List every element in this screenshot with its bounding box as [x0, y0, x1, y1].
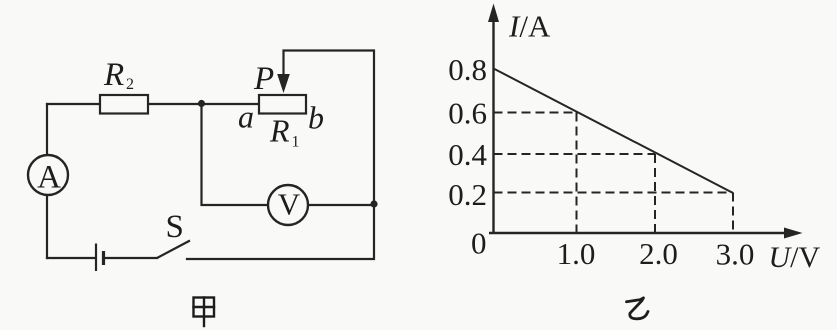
wire: left vertical, top corner down to ammeter top	[46, 104, 48, 155]
x-axis U	[489, 232, 793, 234]
dashed line 2.0 vertical	[654, 154, 656, 233]
svg-text:A: A	[37, 160, 61, 196]
wire: R2 right to junction to R1 left	[148, 103, 259, 105]
svg-text:b: b	[308, 100, 324, 136]
dashed line 0.6 horizontal	[494, 112, 579, 114]
wire: ammeter bottom down to bottom-left corner	[46, 195, 48, 258]
dashed line 3.0 vertical	[732, 193, 734, 234]
label 乙 (drawn glyph)	[627, 298, 649, 319]
wire: top-left horizontal from corner to R2	[47, 103, 100, 105]
ammeter A	[28, 155, 68, 195]
svg-text:a: a	[238, 99, 254, 135]
svg-text:P: P	[253, 61, 274, 97]
svg-text:0: 0	[471, 226, 487, 261]
dashed line 0.2 horizontal	[494, 192, 734, 194]
resistor R2	[100, 95, 148, 114]
dashed line 1.0 vertical	[576, 113, 578, 234]
voltmeter V	[268, 185, 308, 225]
svg-text:2: 2	[126, 76, 134, 93]
dashed line 0.4 horizontal	[494, 153, 656, 155]
x-axis arrowhead	[784, 228, 803, 239]
wire: slider top wire over to right vertical and down	[284, 51, 375, 206]
y-axis I	[492, 14, 494, 234]
wire: battery to switch left contact	[104, 257, 157, 259]
svg-text:R: R	[269, 113, 290, 149]
svg-text:R: R	[103, 57, 124, 93]
battery cell	[96, 244, 104, 272]
svg-text:0.4: 0.4	[448, 137, 487, 172]
svg-text:1: 1	[292, 134, 300, 151]
I-U line	[494, 69, 734, 194]
label 甲 (drawn glyph)	[194, 298, 215, 327]
svg-text:V: V	[278, 187, 301, 222]
svg-text:1.0: 1.0	[557, 236, 596, 271]
svg-text:0.2: 0.2	[448, 177, 487, 212]
svg-text:I/A: I/A	[508, 9, 551, 44]
wire: voltmeter right to right vertical	[308, 204, 374, 206]
slider P arrowhead	[277, 74, 290, 93]
svg-text:0.8: 0.8	[448, 52, 487, 87]
svg-text:U/V: U/V	[769, 241, 821, 274]
switch S blade	[157, 241, 190, 259]
y-axis arrowhead	[488, 4, 499, 23]
junction node at voltmeter right	[370, 200, 377, 207]
wire: bottom left, corner to battery	[47, 257, 95, 259]
wire: junction down to voltmeter branch	[202, 104, 269, 205]
wire: switch right contact to bottom-right corner and up	[187, 205, 374, 259]
svg-text:3.0: 3.0	[716, 237, 755, 272]
rheostat R1 body	[259, 95, 306, 114]
svg-text:0.6: 0.6	[448, 96, 487, 131]
svg-text:2.0: 2.0	[639, 236, 678, 271]
junction node after R2	[198, 100, 205, 107]
svg-text:S: S	[166, 209, 184, 245]
